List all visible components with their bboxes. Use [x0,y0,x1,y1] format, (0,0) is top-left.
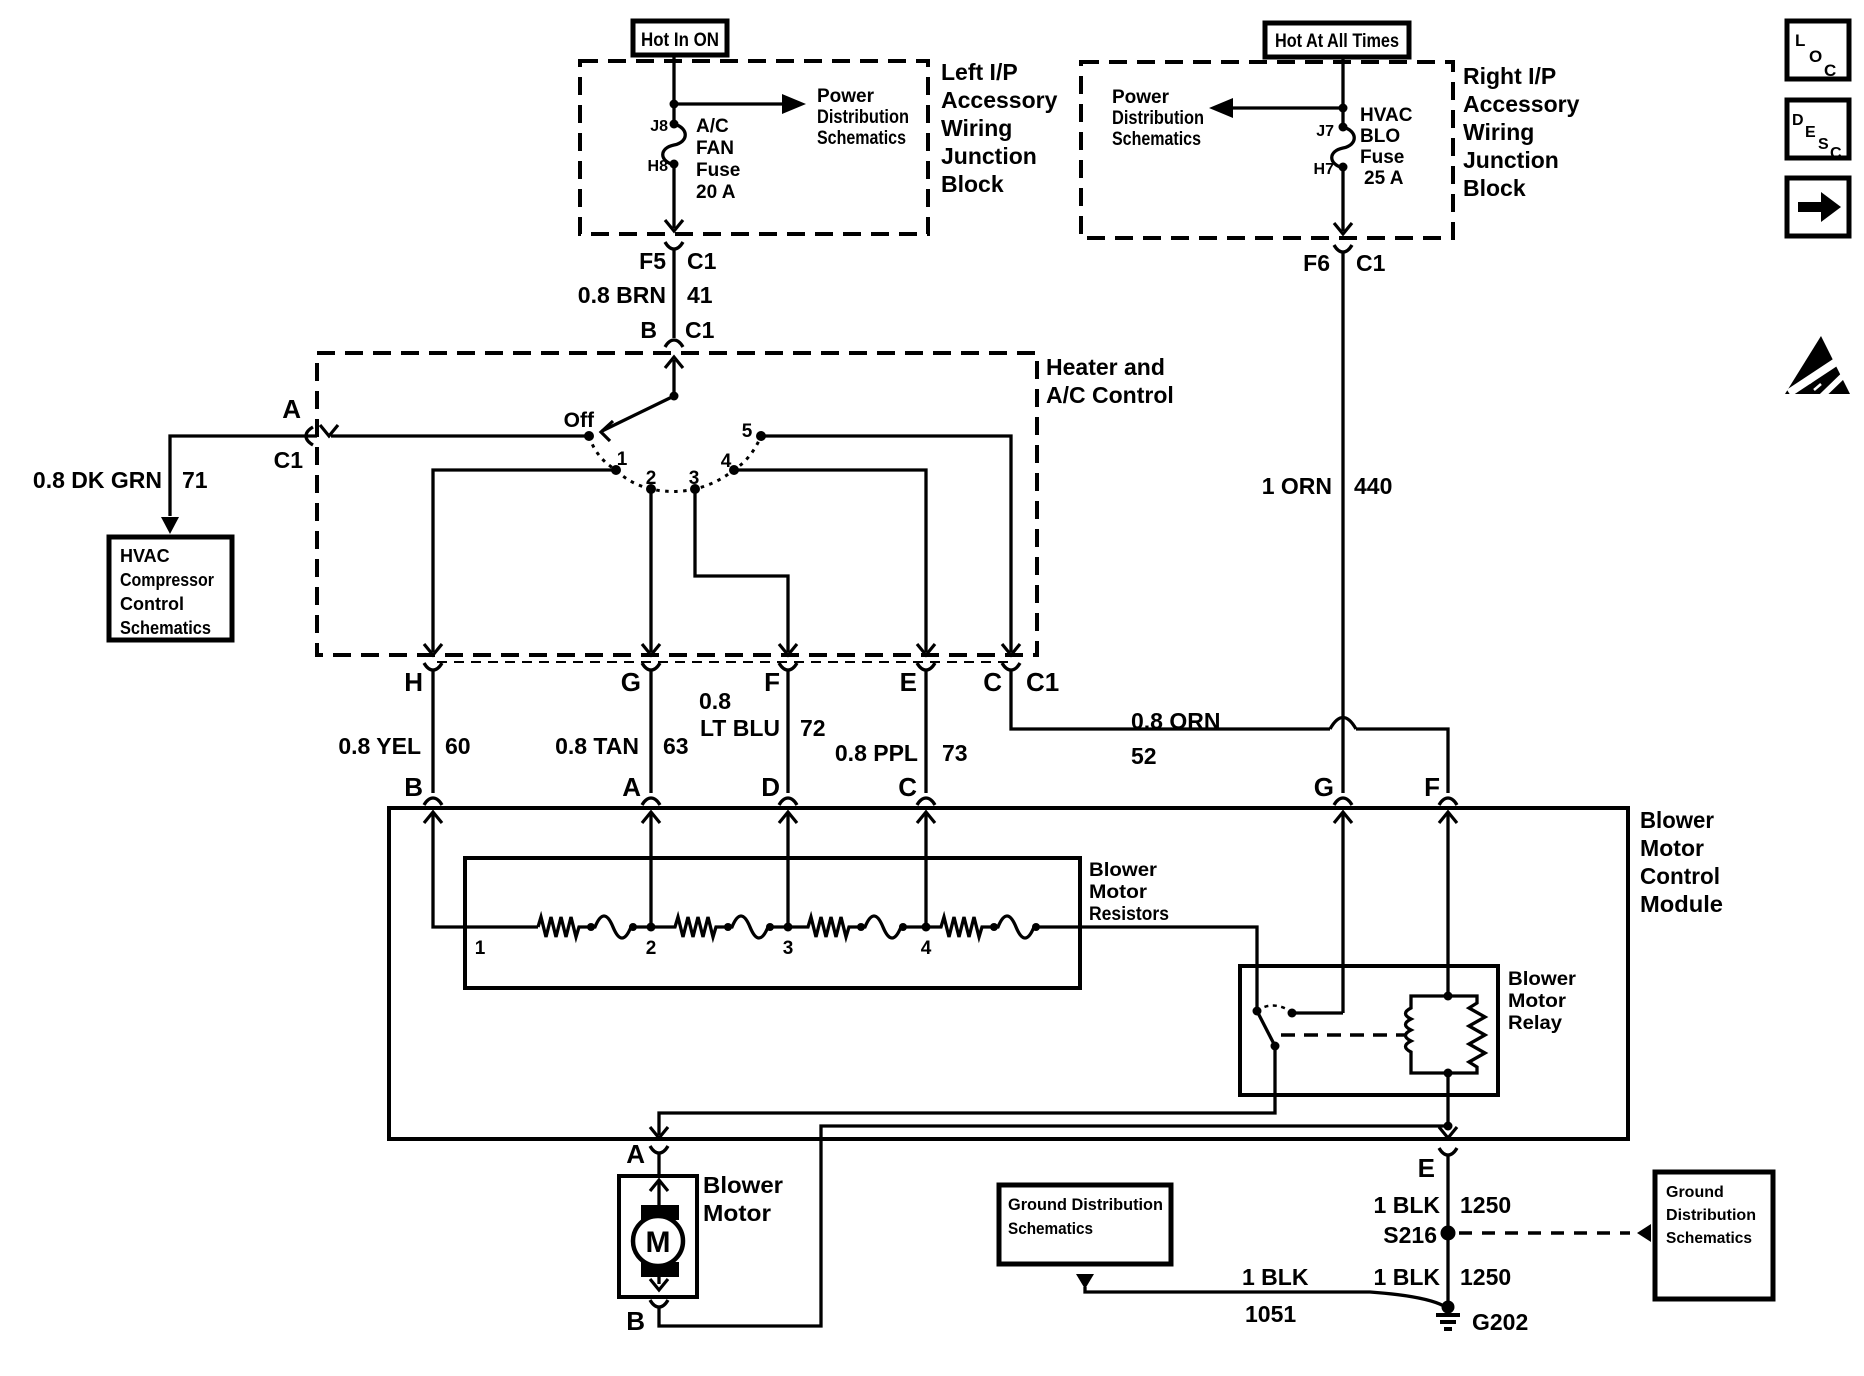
label: wire 1 BLK circuit 1250 (lower) [1374,1264,1512,1290]
svg-text:3: 3 [689,468,700,489]
label: resistor tap 1 [475,938,486,959]
wire: Hot In ON feed to fuse J8 [672,54,675,122]
svg-text:C1: C1 [1356,250,1386,276]
wire: module exit arrow at terminal A [650,1127,668,1138]
svg-text:Compressor: Compressor [120,570,214,590]
svg-text:Hot In ON: Hot In ON [641,30,719,51]
wire: terminal C into module (arrow up) [917,812,935,927]
svg-text:S216: S216 [1383,1222,1437,1248]
svg-text:73: 73 [942,740,968,766]
label: Blower Motor [703,1172,783,1226]
svg-text:H8: H8 [648,158,669,175]
label: wire 0.8 DK GRN circuit 71 [33,467,208,493]
svg-text:1051: 1051 [1245,1301,1296,1327]
svg-text:5: 5 [742,421,753,442]
svg-text:0.8 ORN: 0.8 ORN [1131,708,1220,734]
svg-text:1250: 1250 [1460,1264,1511,1290]
wire: terminal B into module (arrow up) [424,812,538,927]
svg-text:E: E [900,667,917,697]
svg-text:A/C Control: A/C Control [1046,382,1174,408]
node: resistor tap 2 [646,923,657,960]
svg-text:1 BLK: 1 BLK [1242,1264,1309,1290]
connector C1 terminal C (fork up) [983,663,1059,697]
label: A / C1 [274,394,304,473]
label: Power Distribution Schematics (left block) [817,86,909,149]
svg-text:D: D [761,772,780,802]
wire: 0.8 DK GRN 71 to HVAC compressor control [161,436,317,534]
svg-text:F: F [1424,772,1440,802]
svg-text:Power: Power [1112,87,1170,108]
connector C1 terminal F6 (fork up) [1334,245,1352,252]
svg-text:B: B [640,317,657,343]
svg-text:0.8: 0.8 [699,688,731,714]
svg-text:E: E [1805,124,1816,141]
svg-text:Accessory: Accessory [941,87,1058,113]
label: wire 0.8 TAN circuit 63 [555,733,689,759]
node: switch position 1 [611,449,628,475]
wire: branch to Power Distribution Schematics (arrow right) [674,94,806,114]
wire: terminal A into module (arrow up) [642,812,660,927]
wire: position 1 to terminal H (arrow down) [424,470,616,655]
svg-text:Wiring: Wiring [941,115,1012,141]
switch arc (dotted path Off-1-2-3-4-5) [589,436,761,492]
svg-text:G: G [1314,772,1334,802]
blower motor control module box [389,808,1628,1139]
svg-text:FAN: FAN [696,138,734,159]
svg-text:Hot At All Times: Hot At All Times [1275,31,1399,52]
label: Power Distribution Schematics (right block) [1112,87,1204,150]
svg-text:0.8 PPL: 0.8 PPL [835,740,918,766]
icon: LOC button [1787,21,1849,80]
node: E junction (motor return joins coil return) [1444,1122,1453,1131]
svg-text:Motor: Motor [1508,991,1567,1012]
node: switch position Off [584,431,594,441]
wire: module exit arrow at terminal E [1439,1127,1457,1138]
svg-text:Relay: Relay [1508,1013,1562,1034]
node: resistor tap 3 [783,923,794,960]
connector terminal E below module (fork up) [1418,1148,1457,1303]
svg-text:Fuse: Fuse [696,160,740,181]
svg-text:Ground: Ground [1666,1184,1724,1201]
reference box: HVAC Compressor Control Schematics [109,537,232,640]
svg-text:S: S [1818,136,1829,153]
svg-text:1 ORN: 1 ORN [1262,473,1332,499]
svg-text:25 A: 25 A [1364,168,1404,189]
svg-text:Left I/P: Left I/P [941,59,1018,85]
svg-text:HVAC: HVAC [1360,105,1413,126]
icon: DESC button [1787,100,1849,162]
resistor R3 (tap3-tap4) with thermal limiter [788,916,926,938]
svg-text:Control: Control [1640,863,1720,889]
label: wire 0.8 ORN circuit 52 [1131,708,1220,769]
svg-text:M: M [646,1226,671,1259]
svg-text:Distribution: Distribution [1112,108,1204,129]
resistor R2 (tap2-tap3) with thermal limiter [651,916,788,938]
wire: position 4 to terminal E (arrow down) [734,470,935,655]
svg-text:Schematics: Schematics [1666,1230,1752,1247]
svg-text:A: A [626,1139,645,1169]
label: wire 0.8 LT BLU circuit 72 [699,688,826,741]
svg-text:BLO: BLO [1360,126,1400,147]
wire: 1 ORN 440 from F6 down to module terminal G [1341,252,1344,793]
svg-text:41: 41 [687,282,713,308]
label: Left I/P Accessory Wiring Junction Block [941,59,1058,197]
svg-text:60: 60 [445,733,471,759]
svg-text:Fuse: Fuse [1360,147,1404,168]
label: Right I/P Accessory Wiring Junction Block [1463,63,1580,201]
connector terminal D at module (fork down) [761,772,797,805]
svg-text:H: H [404,667,423,697]
svg-text:Motor: Motor [703,1200,771,1226]
icon: ESD sensitive device warning triangle [1785,336,1850,399]
svg-text:Schematics: Schematics [120,618,211,638]
fuse F2: HVAC BLO Fuse 25 A (terminals J7/H7) [1314,105,1413,189]
label: Heater and A/C Control [1046,354,1174,408]
wire: 1 BLK 1051 from ground schematics to G202 [1076,1274,1444,1306]
svg-text:Blower: Blower [1640,807,1714,833]
node: switch position 5 [742,421,766,442]
svg-text:E: E [1418,1153,1435,1183]
svg-text:4: 4 [921,938,932,959]
svg-text:2: 2 [646,938,657,959]
node: resistor tap 4 [921,923,932,960]
wire: branch to Power Distribution Schematics (arrow left) [1209,98,1343,118]
blower motor M1: feed arrow, brushes, armature [633,1180,683,1290]
svg-text:J7: J7 [1316,123,1334,140]
wire: switch feed from connector B (arrow up into box) [665,357,683,396]
svg-text:Junction: Junction [1463,147,1559,173]
label: wire 0.8 BRN circuit 41 [578,282,713,308]
resistor R4 (tap4-output) with thermal limiter [926,916,1040,938]
relay K1: switch common node [1253,1007,1262,1016]
heater and A/C control box (dashed) [317,353,1037,655]
svg-text:J8: J8 [650,118,668,135]
switch S1: blower switch wiper (node to Off, arrow) [601,392,679,442]
svg-text:52: 52 [1131,743,1157,769]
svg-text:O: O [1809,47,1822,66]
svg-text:63: 63 [663,733,689,759]
svg-text:Module: Module [1640,891,1723,917]
node: branch junction above fuse J8 [670,100,679,109]
svg-text:440: 440 [1354,473,1392,499]
node: branch junction above fuse J7 [1339,104,1348,113]
blower motor box [619,1176,697,1297]
svg-text:Power: Power [817,86,875,107]
svg-text:72: 72 [800,715,826,741]
connector C1 terminal F (fork up) [764,663,797,793]
svg-text:G202: G202 [1472,1309,1528,1335]
relay K1: mechanical link arm-to-coil (dashed) [1281,1033,1406,1037]
relay K1: movable arm [1257,1011,1280,1051]
svg-text:Schematics: Schematics [1008,1219,1093,1238]
left I/P accessory wiring junction block (dashed) [580,61,928,234]
svg-text:G: G [621,667,641,697]
reference box: Ground Distribution Schematics (right) [1655,1172,1773,1299]
wire: terminal D into module (arrow up) [779,812,797,927]
svg-text:C: C [898,772,917,802]
wire: dashed reference to ground distribution schematics [1459,1224,1651,1242]
resistor R1 (tap1-tap2) with thermal limiter [538,916,651,938]
flag: Hot In ON [633,21,727,55]
wire: position 2 to terminal G (arrow down) [642,489,660,655]
wire: relay coil low side to E junction [1446,1073,1449,1126]
svg-text:LT BLU: LT BLU [700,715,780,741]
svg-text:Block: Block [1463,175,1526,201]
connector terminal A at motor (fork up) [626,1139,668,1176]
svg-text:Accessory: Accessory [1463,91,1580,117]
svg-text:Blower: Blower [1508,969,1577,990]
wire: terminal F into module (arrow up) [1439,812,1457,996]
svg-text:D: D [1792,112,1804,129]
svg-text:L: L [1795,31,1805,50]
blower motor resistors box [465,858,1080,988]
node: switch position 3 [689,468,700,494]
label: wire 0.8 YEL circuit 60 [338,733,470,759]
connector C1 terminal B (fork down) [665,340,683,347]
svg-text:1 BLK: 1 BLK [1374,1192,1441,1218]
label: F6 / C1 [1303,250,1385,276]
right I/P accessory wiring junction block (dashed) [1081,62,1453,238]
svg-text:Schematics: Schematics [1112,129,1201,150]
svg-text:Schematics: Schematics [817,128,906,149]
svg-text:Motor: Motor [1089,882,1148,903]
svg-text:C1: C1 [685,317,715,343]
connector terminal B at module (fork down) [404,772,442,805]
label: wire 1 BLK circuit 1250 (upper) [1374,1192,1512,1218]
wire: position 3 to terminal F (arrow down) [695,489,797,655]
label: Blower Motor Resistors [1089,860,1169,925]
svg-text:71: 71 [182,467,208,493]
svg-text:0.8 DK GRN: 0.8 DK GRN [33,467,162,493]
relay K1: coil with parallel resistor [1406,992,1486,1078]
label: B / C1 [640,317,714,343]
svg-text:A/C: A/C [696,116,729,137]
svg-text:Junction: Junction [941,143,1037,169]
connector C1 terminal G (fork up) [621,663,660,793]
svg-text:C1: C1 [274,447,304,473]
svg-text:B: B [626,1306,645,1336]
svg-text:C: C [1824,61,1836,80]
svg-text:Resistors: Resistors [1089,904,1169,925]
svg-text:Motor: Motor [1640,835,1704,861]
svg-text:Distribution: Distribution [1666,1207,1756,1224]
relay K1: fixed contact node to terminal G [1288,1009,1344,1018]
svg-text:C: C [983,667,1002,697]
svg-text:2: 2 [646,468,657,489]
connector terminal G at module (fork down) [1314,772,1352,805]
wire: position 5 to terminal C (arrow down) [761,436,1020,655]
connector C1 terminal E (fork up) [900,663,935,793]
connector terminal F at module (fork down) [1424,772,1457,805]
wire: 0.8 ORN 52 from C1-C to module terminal F (hop over 1 ORN) [1011,670,1448,793]
svg-text:Control: Control [120,594,184,614]
svg-text:H7: H7 [1314,161,1335,178]
svg-text:Heater and: Heater and [1046,354,1165,380]
relay K1: contact movement (dashed) [1257,1006,1290,1012]
connector C1 terminal A (fork on box edge) [306,427,313,445]
wire: fuse H7 output down to connector F6 (arrow down) [1334,167,1352,234]
label: wire 0.8 PPL circuit 73 [835,740,968,766]
svg-text:C1: C1 [1026,667,1059,697]
wire: relay arm output down and left to motor feed [659,1046,1275,1135]
label: Off [564,409,595,432]
ground G202 [1436,1301,1528,1336]
svg-text:Block: Block [941,171,1004,197]
svg-text:HVAC: HVAC [120,546,170,566]
svg-text:1250: 1250 [1460,1192,1511,1218]
wire: fuse H8 output down to connector F5 (arrow down) [665,164,683,231]
svg-text:20 A: 20 A [696,182,736,203]
connector terminal C at module (fork down) [898,772,935,805]
icon: next-page arrow button [1787,178,1849,236]
svg-text:0.8 BRN: 0.8 BRN [578,282,666,308]
wire: resistor output to relay common [1036,927,1257,1011]
splice S216 [1383,1222,1455,1248]
svg-text:Blower: Blower [703,1172,783,1198]
svg-text:Distribution: Distribution [817,107,909,128]
svg-text:Blower: Blower [1089,860,1158,881]
label: Blower Motor Control Module [1640,807,1723,917]
svg-text:1: 1 [617,449,628,470]
svg-text:A: A [622,772,641,802]
svg-text:4: 4 [721,451,732,472]
svg-text:Wiring: Wiring [1463,119,1534,145]
node: switch position 2 [646,468,657,494]
wire: Off position to connector A (arrow left) [320,425,589,436]
connector C1 terminal F5 (fork up) [665,242,683,338]
svg-text:0.8 TAN: 0.8 TAN [555,733,639,759]
svg-text:0.8 YEL: 0.8 YEL [338,733,421,759]
reference box: Ground Distribution Schematics (left) [999,1185,1171,1264]
svg-text:Right I/P: Right I/P [1463,63,1556,89]
wire: motor return B to E junction [659,1126,1448,1326]
svg-text:3: 3 [783,938,794,959]
connector C1 terminal H (fork up) [404,663,442,793]
svg-text:F6: F6 [1303,250,1330,276]
fuse F1: A/C FAN Fuse 20 A (terminals J8/H8) [648,116,741,203]
wire: Hot At All Times feed to fuse J7 [1341,56,1344,127]
label: Blower Motor Relay [1508,969,1577,1034]
svg-text:F5: F5 [639,248,666,274]
wire: terminal G into module (arrow up) [1334,812,1352,1013]
svg-text:F: F [764,667,780,697]
connector terminal A at module (fork down) [622,772,660,805]
blower motor relay box [1240,966,1498,1095]
svg-text:Off: Off [564,409,595,432]
svg-text:C: C [1830,145,1842,162]
svg-text:A: A [282,394,301,424]
svg-text:1: 1 [475,938,486,959]
svg-text:1 BLK: 1 BLK [1374,1264,1441,1290]
connector C1 row line (thin dashed) [437,661,1008,663]
svg-text:B: B [404,772,423,802]
label: wire 1 ORN circuit 440 [1262,473,1393,499]
label: F5 / C1 [639,248,716,274]
svg-text:Ground Distribution: Ground Distribution [1008,1195,1163,1214]
connector terminal B at motor (fork down) [626,1300,668,1336]
label: wire 1 BLK circuit 1051 [1242,1264,1309,1327]
svg-text:C1: C1 [687,248,717,274]
flag: Hot At All Times [1265,23,1409,57]
node: switch position 4 [721,451,739,475]
